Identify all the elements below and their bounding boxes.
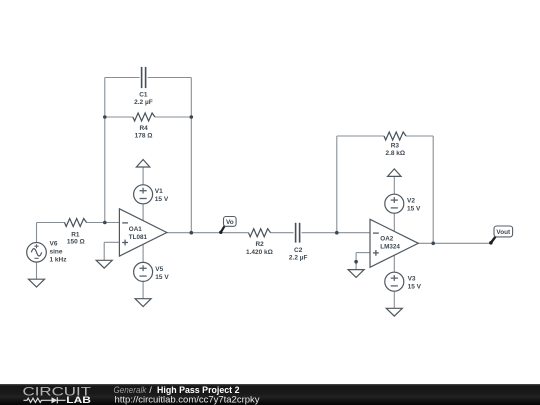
svg-text:1.420 kΩ: 1.420 kΩ bbox=[246, 249, 273, 256]
svg-text:R4: R4 bbox=[139, 125, 148, 132]
svg-text:Vout: Vout bbox=[496, 229, 511, 236]
svg-text:http://circuitlab.com/cc7y7ta2: http://circuitlab.com/cc7y7ta2crpky bbox=[115, 395, 260, 405]
svg-text:sine: sine bbox=[50, 248, 63, 255]
svg-text:OA1: OA1 bbox=[129, 226, 142, 233]
svg-text:V3: V3 bbox=[408, 275, 416, 282]
svg-text:15 V: 15 V bbox=[155, 196, 169, 203]
svg-text:C1: C1 bbox=[139, 92, 148, 99]
svg-text:2.8 kΩ: 2.8 kΩ bbox=[385, 150, 405, 157]
svg-text:TL081: TL081 bbox=[129, 234, 148, 241]
svg-text:178 Ω: 178 Ω bbox=[135, 133, 153, 140]
svg-text:C2: C2 bbox=[294, 247, 303, 254]
svg-text:R2: R2 bbox=[255, 241, 264, 248]
svg-text:V5: V5 bbox=[155, 266, 163, 273]
svg-text:V2: V2 bbox=[407, 198, 415, 205]
svg-text:V6: V6 bbox=[50, 241, 58, 248]
svg-text:15 V: 15 V bbox=[408, 283, 422, 290]
svg-text:LAB: LAB bbox=[66, 395, 91, 405]
svg-text:2.2 µF: 2.2 µF bbox=[289, 255, 308, 262]
svg-text:R3: R3 bbox=[391, 142, 400, 149]
svg-text:150 Ω: 150 Ω bbox=[67, 239, 85, 246]
svg-text:15 V: 15 V bbox=[407, 206, 421, 213]
svg-text:2.2 µF: 2.2 µF bbox=[134, 99, 153, 106]
svg-text:15 V: 15 V bbox=[155, 274, 169, 281]
svg-text:Vo: Vo bbox=[226, 219, 234, 226]
svg-text:OA2: OA2 bbox=[380, 236, 393, 243]
svg-text:1 kHz: 1 kHz bbox=[50, 256, 68, 263]
svg-text:V1: V1 bbox=[155, 188, 163, 195]
svg-text:LM324: LM324 bbox=[380, 244, 400, 251]
svg-text:R1: R1 bbox=[71, 231, 80, 238]
